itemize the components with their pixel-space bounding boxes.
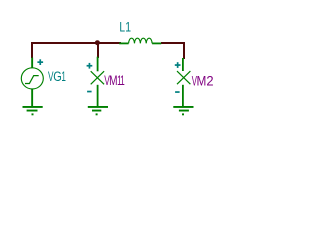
L1 label — [119, 20, 131, 36]
node junction dot — [95, 40, 100, 45]
ground under VM2 — [173, 106, 193, 115]
ground under VM1 — [88, 106, 108, 115]
wire top-left: VG1 top to node — [31, 42, 121, 58]
ground under VG1 — [23, 106, 43, 115]
VM1 minus sign — [87, 91, 92, 93]
svg-text:M: M — [197, 73, 207, 89]
svg-text:1: 1 — [125, 20, 131, 36]
inductor L1 — [119, 38, 161, 43]
svg-text:2: 2 — [206, 73, 213, 89]
svg-text:1: 1 — [61, 69, 66, 85]
wire top-right: L1 to VM2 — [161, 42, 185, 59]
VM1 label — [104, 73, 125, 89]
svg-text:L: L — [119, 20, 125, 36]
VM2 label — [192, 73, 214, 89]
voltmeter VM2 — [177, 58, 190, 106]
VG1 plus sign — [37, 59, 43, 65]
VG1 label — [48, 69, 66, 85]
svg-text:1: 1 — [120, 73, 125, 89]
VM2 minus sign — [175, 91, 180, 93]
VM2 plus sign — [175, 62, 181, 68]
wire: node to VM1 — [97, 43, 99, 58]
VM1 plus sign — [87, 63, 93, 69]
voltage generator VG1 — [21, 58, 43, 107]
voltmeter VM1 — [91, 57, 104, 107]
